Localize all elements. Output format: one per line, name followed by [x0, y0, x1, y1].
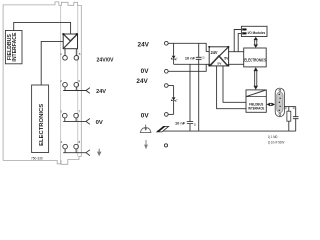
down arrow to earth [144, 140, 148, 149]
suppressor diode D1 [171, 43, 178, 64]
capacitor C1 10nF 24V-earth [196, 43, 205, 131]
svg-text:1) 1 MΩ: 1) 1 MΩ [268, 135, 278, 139]
module inner edge line [60, 5, 62, 160]
svg-text:1: 1 [60, 52, 62, 56]
svg-text:*: * [176, 56, 178, 60]
resistor 1) 1 MOhm [285, 106, 291, 131]
svg-text:2: 2 [60, 79, 62, 83]
fieldbus interface box with isolation (right) [246, 90, 266, 112]
svg-text:24V: 24V [136, 78, 148, 85]
contact 6 [74, 82, 79, 87]
earth shield rail [157, 130, 296, 132]
svg-text:24V/0V: 24V/0V [97, 57, 114, 63]
svg-text:ELECTRONICS: ELECTRONICS [39, 104, 45, 146]
wire fieldbus interface to DC/DC converter [14, 22, 71, 34]
wire 0V rail to converter [168, 64, 209, 71]
power jumper knife contact row 4 [86, 150, 90, 156]
contact 8 [74, 144, 79, 149]
svg-text:5V: 5V [224, 56, 229, 60]
contact 3 [63, 113, 68, 118]
contact 7 [74, 113, 79, 118]
wires converter to fieldbus interface [217, 66, 246, 109]
DC/DC converter 24V/5V [208, 46, 229, 66]
wire stub to contact 1 [64, 49, 66, 56]
suppressor diode D2 [171, 86, 178, 115]
electronics box (right) [244, 48, 267, 67]
svg-text:24V: 24V [96, 89, 106, 95]
wire 5V converter to electronics [229, 51, 244, 53]
D-sub fieldbus connector [275, 88, 284, 117]
fieldbus interface box (left module) [5, 31, 22, 64]
data bus arrow electronics - fieldbus interface [254, 67, 259, 89]
svg-text:8: 8 [78, 140, 80, 144]
capacitor 2) 10nF 500V [293, 106, 299, 131]
svg-text:0V: 0V [141, 112, 150, 119]
svg-text:I/O Modules: I/O Modules [248, 30, 266, 35]
unconnected FE terminal [164, 144, 167, 147]
wire electronics to DC/DC converter [41, 41, 63, 85]
svg-text:0V: 0V [141, 68, 150, 75]
equipotential earth symbol [140, 125, 151, 133]
contact 4 [63, 144, 68, 149]
terminal 24V supply [164, 41, 168, 45]
wire row 3 [63, 118, 86, 122]
wires 5V bus to I/O modules [234, 30, 241, 52]
rail contact wedge [157, 126, 169, 131]
wire 24V field [168, 85, 174, 87]
electronics box (left module) [32, 85, 49, 153]
svg-text:4: 4 [61, 140, 63, 144]
svg-text:10 nF: 10 nF [185, 55, 196, 60]
svg-text:3: 3 [60, 110, 62, 114]
contact 2 [63, 82, 68, 87]
wire row 4 [63, 149, 86, 153]
svg-text:*: * [176, 98, 178, 102]
wire D-sub shell to earth network [284, 106, 295, 108]
terminal 24V field [164, 84, 168, 88]
power jumper knife contact row 3 [86, 119, 90, 125]
contact 5 [74, 56, 79, 61]
svg-text:6: 6 [78, 79, 80, 83]
contact 1 [63, 56, 68, 61]
svg-text:24V: 24V [211, 50, 218, 55]
module right inner edge line [77, 5, 79, 156]
data bus arrow fieldbus interface - D-sub [267, 103, 276, 107]
data bus arrow I/O modules - electronics [254, 37, 259, 48]
svg-text:2): 2) [293, 106, 295, 110]
svg-text:7: 7 [78, 110, 80, 114]
svg-text:750-330: 750-330 [31, 157, 43, 161]
svg-text:INTERFACE: INTERFACE [248, 105, 264, 110]
DC/DC converter (left module) [62, 33, 77, 49]
svg-text:24V: 24V [138, 42, 150, 49]
terminal 0V field [164, 113, 168, 117]
svg-text:1): 1) [285, 106, 287, 110]
I/O modules box [241, 26, 267, 36]
svg-text:5: 5 [79, 52, 81, 56]
svg-text:2): 2) [202, 56, 204, 60]
terminal 0V supply [164, 69, 168, 73]
svg-text:INTERFACE: INTERFACE [12, 32, 18, 62]
svg-text:0V: 0V [96, 120, 103, 126]
wire 0V field [168, 113, 174, 115]
capacitor C2 10nF 0V-earth [187, 64, 196, 131]
svg-text:2): 2) [194, 123, 196, 127]
module housing outline (750-330 bus coupler) [3, 2, 81, 164]
power jumper knife contact row 2 [86, 88, 90, 94]
svg-text:ELECTRONICS: ELECTRONICS [244, 57, 266, 62]
wire stub to contact 5 [75, 49, 77, 56]
down arrow rail earth (left module) [97, 149, 102, 157]
wire row 2 [63, 87, 86, 91]
wire 24V rail to converter [168, 43, 209, 51]
svg-text:10 nF: 10 nF [175, 121, 186, 126]
svg-text:2) 10 nF 500V: 2) 10 nF 500V [268, 140, 285, 144]
svg-text:5V: 5V [217, 62, 221, 66]
wire 0V converter to electronics [229, 63, 244, 65]
